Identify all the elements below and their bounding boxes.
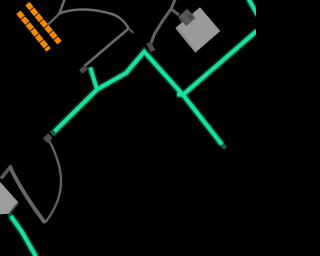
green stub at D core — [177, 93, 183, 97]
green main line C-B-A-D-E halo — [52, 52, 222, 145]
green dark end cap at C — [52, 132, 55, 134]
station knob at C (gray blob over green end) — [43, 133, 53, 143]
road arc branch to the right — [59, 9, 128, 28]
green dark end tip at E — [222, 145, 226, 149]
road end cap near green connector — [79, 65, 88, 74]
road Y-stem under train (top-left) — [47, 14, 59, 26]
road thick diagonal from top edge to bottom-left vertex — [10, 167, 45, 223]
station knob at end of top-right road — [146, 41, 155, 52]
building BL dark lower edge — [10, 202, 19, 213]
building (top-right light gray rotated square) — [175, 7, 220, 52]
green line to right edge core — [183, 31, 257, 95]
green line BL from building corner to bottom edge — [9, 214, 11, 216]
road curve from green end down the big arc (left-middle) — [45, 141, 61, 223]
station knob on building corner (dark mottled blob) — [178, 9, 196, 27]
green corner segment top-right core — [249, 0, 258, 15]
road from top edge to station knob (top-right) — [150, 0, 176, 46]
green line to right edge halo — [183, 31, 257, 95]
green corner dark tail — [253, 4, 260, 21]
green corner segment top-right halo — [249, 0, 258, 15]
green stub at D halo — [177, 91, 183, 98]
road branch to top edge — [59, 0, 65, 14]
green main line C-B-A-D-E core — [52, 52, 222, 145]
road segment branching down-left to building corner — [1, 166, 12, 179]
orange train bar 2 (right, dashed wagons along curve) — [27, 4, 59, 43]
building (bottom-left light gray rotated block) — [0, 181, 18, 215]
green connector at B halo — [90, 67, 97, 89]
road small stub at corner — [129, 29, 134, 34]
green connector at B core — [90, 67, 97, 89]
orange train bar 1 (left, dashed wagons along curve) — [19, 12, 49, 50]
building TR lower-left edge shade — [175, 27, 197, 53]
road straight from corner down-left to cap — [84, 29, 128, 67]
road spur to building corner — [171, 9, 179, 15]
